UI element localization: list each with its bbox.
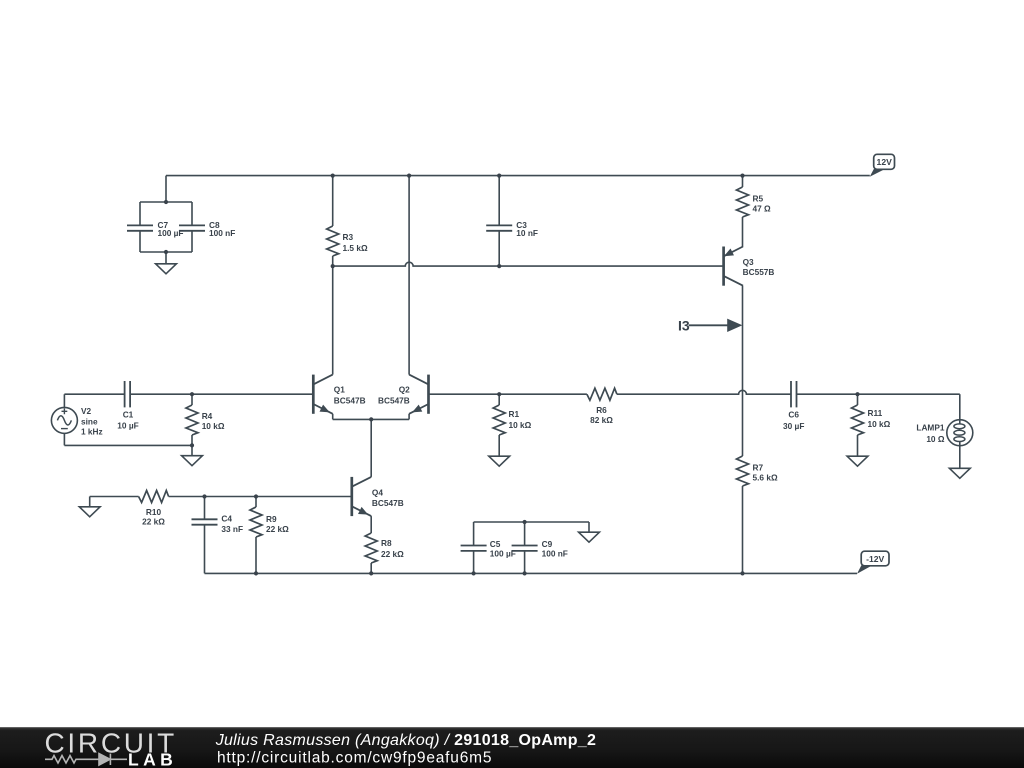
svg-text:10 µF: 10 µF [117,421,138,431]
transistor Q2 [409,375,428,414]
ground left of R10 [79,497,100,517]
ground below LAMP1 [949,468,970,478]
wire C7/C8 box top edge [140,201,192,203]
net flag 12V [870,154,895,176]
capacitor C4 [192,497,218,574]
wire Q3 collector down [742,286,744,456]
svg-text:1 kHz: 1 kHz [81,427,103,437]
svg-text:10 kΩ: 10 kΩ [509,420,532,430]
resistor R1 [493,394,505,456]
ground below R4 [182,445,203,465]
transistor Q3 [724,247,743,286]
svg-text:R11: R11 [868,408,883,418]
wire Q3 emitter stub from R5 [742,246,744,248]
svg-text:R3: R3 [343,232,354,242]
wire top +12V rail [166,175,870,177]
svg-text:1.5 kΩ: 1.5 kΩ [343,243,368,253]
svg-text:Q4: Q4 [372,488,383,498]
svg-text:BC557B: BC557B [743,267,775,277]
resistor R6 [587,388,617,400]
voltage source V2 [51,394,77,445]
svg-text:C4: C4 [221,514,232,524]
wire C1 to Q1 base node [130,393,192,395]
capacitor C9 [512,522,538,573]
svg-text:22 kΩ: 22 kΩ [381,549,404,559]
CircuitLab logo doodle (resistor + diode) [45,754,127,765]
svg-text:100 nF: 100 nF [209,228,235,238]
svg-text:82 kΩ: 82 kΩ [590,415,613,425]
current probe I3 arrow [689,320,741,331]
svg-text:R1: R1 [509,409,520,419]
svg-text:10 Ω: 10 Ω [926,434,945,444]
capacitor C8 [179,202,205,252]
svg-text:Julius Rasmussen (Angakkoq) /: Julius Rasmussen (Angakkoq) / 291018_OpA… [215,732,597,749]
wire Q2 collector to rail [408,176,410,375]
ground below R1 [489,456,510,466]
wire base row y=266 with hop over x=409 [333,262,724,266]
svg-text:R6: R6 [596,405,607,415]
wire Q1 emitter stub [332,414,334,420]
wire V2 bottom to R4 bottom [64,444,192,446]
resistor R10 [139,491,169,503]
capacitor C3 [486,176,512,267]
svg-text:R8: R8 [381,538,392,548]
svg-text:sine: sine [81,416,98,426]
wire R1 node to R6 [499,393,587,395]
wire emitters to Q4 collector [370,419,372,477]
svg-text:R4: R4 [202,411,213,421]
capacitor C7 [127,202,153,252]
svg-text:R10: R10 [146,507,162,517]
wire bottom -12V row [205,572,858,574]
svg-text:BC547B: BC547B [334,396,366,406]
resistor R4 [186,394,198,445]
ground below C7/C8 [156,252,177,274]
wire Q2 base to R1 node [429,393,500,395]
svg-text:100 µF: 100 µF [158,228,184,238]
footer bar [0,727,1024,768]
svg-text:-12V: -12V [866,554,884,564]
transistor Q4 [352,477,371,516]
svg-text:12V: 12V [877,157,893,167]
svg-text:BC547B: BC547B [372,498,404,508]
svg-text:5.6 kΩ: 5.6 kΩ [753,473,778,483]
wire R6 to C6 with hop over x=742.5 [617,390,791,394]
svg-text:100 µF: 100 µF [490,549,516,559]
svg-text:C5: C5 [490,539,501,549]
resistor R3 [327,176,339,267]
ground below R11 [847,456,868,466]
resistor R11 [852,394,864,456]
svg-text:R7: R7 [753,462,764,472]
svg-text:C1: C1 [123,409,134,419]
wire C7/C8 box bottom edge [140,251,192,253]
ground right of C9 [579,522,600,542]
capacitor C5 [461,522,487,573]
resistor R9 [250,497,262,574]
svg-text:10 kΩ: 10 kΩ [868,419,891,429]
resistor R8 [365,533,377,573]
wire Q4 base row [90,496,352,498]
svg-text:LAB: LAB [128,749,177,768]
capacitor C6 [791,381,797,407]
wire R3 bottom to Q1 collector [332,266,334,375]
wire Q4 emitter stub [370,516,372,533]
lamp LAMP1 [947,394,973,468]
wire C6 to lamp corner [797,393,960,395]
svg-text:LAMP1: LAMP1 [916,423,945,433]
svg-text:Q1: Q1 [334,385,345,395]
wire Q2 emitter stub [408,414,410,420]
svg-text:Q3: Q3 [743,257,754,267]
svg-text:22 kΩ: 22 kΩ [266,524,289,534]
resistor R5 [737,176,749,247]
svg-text:Q2: Q2 [399,385,410,395]
svg-text:BC547B: BC547B [378,396,410,406]
svg-text:33 nF: 33 nF [221,524,243,534]
svg-text:30 µF: 30 µF [783,421,804,431]
net flag -12V [857,551,889,574]
svg-text:R9: R9 [266,514,277,524]
svg-text:http://circuitlab.com/cw9fp9ea: http://circuitlab.com/cw9fp9eafu6m5 [217,750,492,767]
svg-text:C6: C6 [788,410,799,420]
svg-text:I3: I3 [678,318,690,334]
wire V2 top to C1 [64,393,124,395]
svg-text:10 kΩ: 10 kΩ [202,421,225,431]
svg-text:C9: C9 [542,539,553,549]
wire Q1 base [192,393,313,395]
svg-text:22 kΩ: 22 kΩ [142,517,165,527]
svg-text:100 nF: 100 nF [542,549,568,559]
svg-text:10 nF: 10 nF [516,228,538,238]
wire C5/C9 top row [474,521,589,523]
wire emitters join [333,418,409,420]
capacitor C1 [125,381,131,407]
transistor Q1 [313,375,332,414]
svg-text:47 Ω: 47 Ω [753,204,772,214]
svg-text:V2: V2 [81,406,92,416]
wire rail drop to C7/C8 box [165,176,167,202]
resistor R7 [737,456,749,573]
svg-text:R5: R5 [753,194,764,204]
